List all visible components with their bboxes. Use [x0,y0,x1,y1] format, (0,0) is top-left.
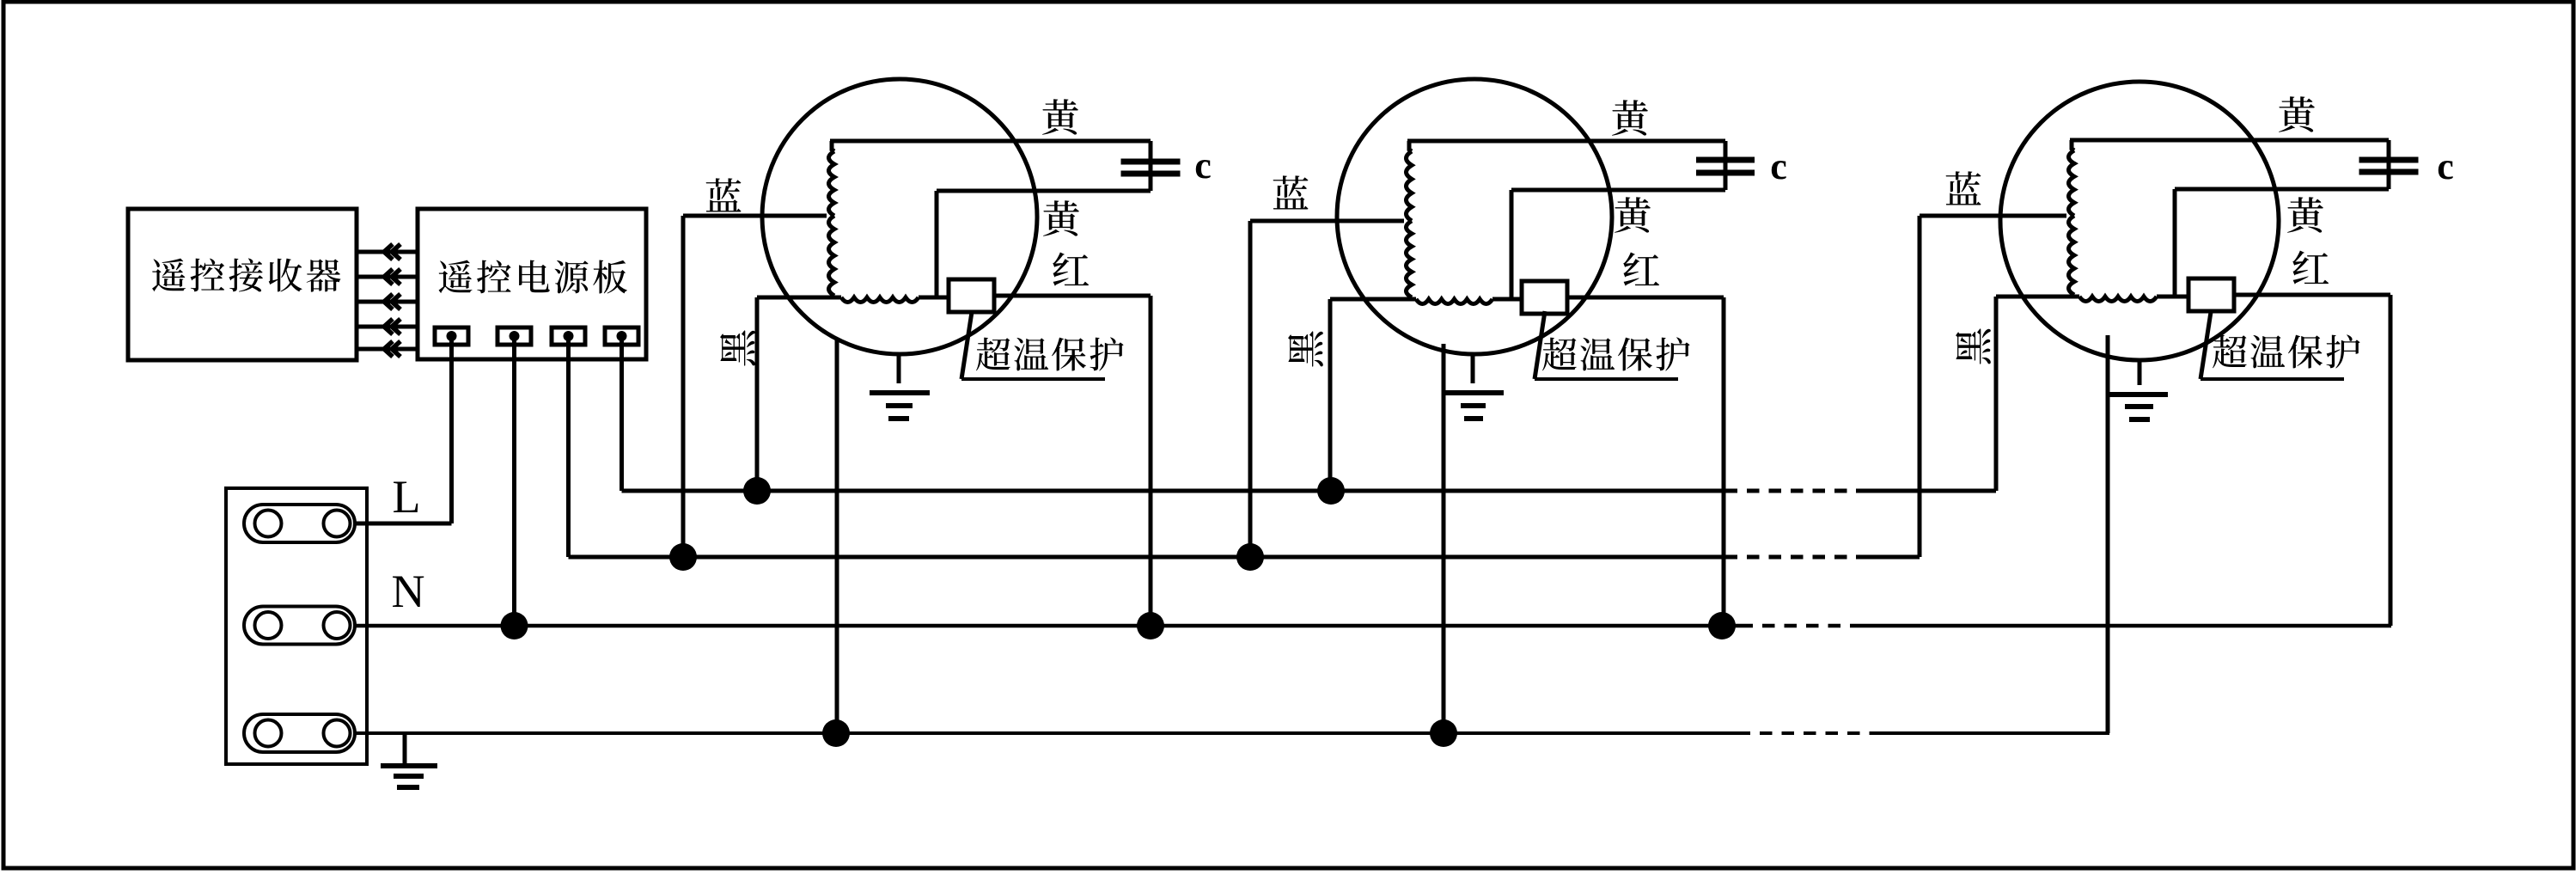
chassis ground stub M3 [2138,360,2142,385]
label 红 (red) M1 [1053,253,1089,286]
signal wire with arrow 3 [357,300,418,304]
junction at (795,648) [669,543,697,571]
yellow wire 1 M3 [2070,138,2389,143]
motor M3 circle [2000,82,2279,360]
bus 4 ground y=853 [355,731,1750,735]
yellow wire 2 drop [1510,190,1514,299]
black wire M3 [1996,295,2079,299]
yellow wire 2 M1 [937,189,1151,193]
label 蓝 (blue) M2 [1273,175,1309,209]
junction at (2004,728) [1708,612,1736,639]
label 遥控电源板 [439,260,627,294]
svg-text:c: c [2437,145,2454,187]
terminal pair 3 [244,714,355,752]
junction at (1549,571) [1317,477,1345,505]
wire winding to protector M2 [1492,297,1522,302]
yellow wire 1 M1 [830,139,1151,144]
blue wire drop M3 [1918,216,1922,557]
motor M2 circle [1337,79,1612,354]
power board terminal 2 [497,327,531,345]
signal wire with arrow 2 [357,275,418,279]
label 红 (red) M3 [2292,251,2329,285]
red wire M2 [1567,296,1724,300]
label 黄 (yellow) 2 M1 [1043,200,1079,236]
label 黄 (yellow) 2 M2 [1615,197,1651,233]
wire through capacitor [1724,141,1728,190]
power board terminal 1 [435,327,468,345]
chassis ground M2 [1444,390,1504,395]
yellow wire 2 M2 [1511,188,1725,193]
bus 3 N y=728 [355,624,1753,628]
label underline M2 [1535,377,1678,381]
blue wire M1 [683,214,827,218]
motor frame wire M3 [2106,335,2110,733]
terminal block ground [403,735,407,766]
motor M1 aux winding (horizontal) [841,297,919,303]
label 超温保护 M3 [2213,334,2360,368]
wire terminal-3 down to bus 2 [566,336,571,557]
blue wire M2 [1250,219,1404,223]
black wire drop M3 [1994,297,1999,491]
svg-text:N: N [392,566,425,617]
motor frame wire M1 [835,340,839,733]
blue wire M3 [1920,214,2066,218]
red wire drop M2 [1722,297,1726,626]
terminal pair 2 [244,607,355,645]
black wire drop M2 [1328,299,1333,491]
junction at (973,853) [822,719,850,747]
label 黄 (yellow) 1 M3 [2279,96,2315,132]
label 红 (red) M2 [1623,253,1659,286]
label 遥控接收器 [152,259,340,292]
junction at (1455,648) [1236,543,1264,571]
yellow wire 2 drop [2173,189,2177,297]
motor M2 main winding (vertical) [1407,141,1413,297]
signal wire with arrow 4 [357,325,418,329]
motor M1 main winding (vertical) [829,141,835,296]
label 黑 (black, rotated) M3 [1956,328,1991,364]
capacitor c M2 [1696,157,1755,163]
junction at (881,571) [743,477,771,505]
junction at (598.5,728) [501,612,528,639]
label 黑 (black, rotated) M2 [1288,331,1323,366]
wire terminal-2 down to N bus [512,336,516,626]
red wire drop M3 [2389,295,2393,626]
power board terminal 4 [605,327,638,345]
blue wire drop M1 [681,216,686,557]
bus 2 (blue) y=648 [569,555,1738,560]
motor M3 main winding (vertical) [2069,140,2075,295]
thermal protector 超温保护 M2 [1522,281,1567,314]
svg-text:L: L [393,471,421,523]
junction at (1680,853) [1430,719,1457,747]
red wire M3 [2234,293,2390,297]
label 超温保护 M2 [1542,337,1690,370]
chassis ground M1 [870,390,930,395]
signal wire with arrow 5 [357,347,418,352]
svg-text:c: c [1194,144,1212,187]
terminal block [226,488,367,764]
thermal protector 超温保护 M1 [949,279,994,312]
label 黄 (yellow) 2 M3 [2287,197,2323,233]
blue wire drop M2 [1248,221,1253,557]
label 蓝 (blue) M1 [706,178,742,211]
motor M3 aux winding (horizontal) [2079,297,2157,302]
chassis ground M3 [2108,392,2168,397]
label underline M1 [961,377,1105,381]
chassis ground stub M2 [1471,354,1475,383]
wire winding to protector M3 [2157,295,2188,299]
bus 1 (black) y=571 [622,489,1738,493]
junction at (1339,728) [1137,612,1164,639]
protector leader line M3 [2201,312,2211,379]
black wire drop M1 [755,297,760,491]
yellow wire 2 drop [935,191,939,297]
label underline M3 [2201,377,2344,381]
black wire M2 [1330,297,1416,302]
chassis ground stub M1 [897,354,901,383]
thermal protector 超温保护 M3 [2188,278,2234,311]
wire winding to protector M1 [919,296,949,300]
wire L from block [355,522,452,526]
wire terminal-4 down to bus 1 [620,336,624,491]
protector leader line M2 [1535,311,1545,379]
motor M2 aux winding (horizontal) [1416,299,1492,304]
terminal pair 1 [244,505,355,542]
capacitor c M1 [1121,159,1181,165]
remote receiver box 遥控接收器 [128,209,357,360]
yellow wire 1 M2 [1407,139,1725,144]
motor M1 circle [762,79,1037,354]
wire through capacitor [1149,141,1153,191]
label 蓝 (blue) M3 [1946,171,1981,205]
capacitor c M3 [2359,157,2419,163]
label 黄 (yellow) 1 M1 [1042,99,1078,135]
protector leader line M1 [961,312,972,379]
signal wire with arrow 1 [357,250,418,254]
label 黑 (black, rotated) M1 [720,330,755,365]
wire through capacitor [2387,140,2391,189]
yellow wire 2 M3 [2175,187,2389,192]
label 超温保护 M1 [976,337,1124,370]
svg-text:c: c [1770,145,1787,187]
power board terminal 3 [552,327,585,345]
red wire drop M1 [1149,296,1153,626]
label 黄 (yellow) 1 M2 [1612,100,1648,136]
motor frame wire M2 [1442,344,1446,733]
wire L terminal-1 down [449,336,454,523]
red wire M1 [994,294,1151,298]
remote power board box 遥控电源板 [418,209,646,359]
black wire M1 [757,296,841,300]
